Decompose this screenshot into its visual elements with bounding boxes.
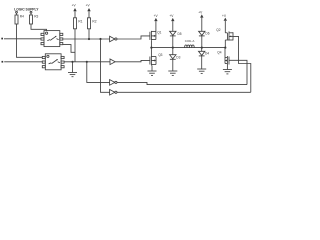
wire R3 lead to IC1 top bbox=[31, 24, 47, 31]
svg-text:LOGIC SUPPLY: LOGIC SUPPLY bbox=[14, 8, 39, 12]
svg-text:Q4: Q4 bbox=[217, 51, 221, 55]
svg-text:+V: +V bbox=[169, 14, 174, 18]
svg-text:+V: +V bbox=[86, 4, 91, 8]
svg-text:D4: D4 bbox=[205, 52, 209, 56]
svg-text:Q1: Q1 bbox=[157, 31, 161, 35]
supply +V arrow 2 bbox=[86, 4, 91, 18]
wire rail coil A bbox=[151, 47, 225, 49]
transistor Q2 bbox=[216, 28, 233, 41]
wire inverter2 out to Q3 gate bbox=[115, 60, 150, 61]
svg-text:D6: D6 bbox=[205, 32, 209, 36]
svg-text:+V: +V bbox=[222, 14, 227, 18]
svg-text:R3: R3 bbox=[34, 15, 38, 19]
supply +V arrow D5 bbox=[169, 14, 174, 32]
inverter 4 bbox=[110, 90, 117, 96]
diode D4 bbox=[199, 48, 210, 56]
supply +V arrow 1 bbox=[72, 4, 77, 18]
svg-text:+V: +V bbox=[72, 4, 77, 8]
resistor R1 bbox=[74, 18, 83, 29]
op-amp U1 optocoupler DIP bbox=[41, 31, 63, 47]
wire Q4 middle lead to right edge loop bbox=[229, 60, 247, 84]
wire L from line1 to R1 lead bbox=[63, 45, 75, 53]
wire Q2 gate loop to bottom line2 bbox=[233, 36, 251, 92]
svg-text:+V: +V bbox=[154, 14, 159, 18]
wire inverter3 out long bottom line bbox=[117, 82, 247, 84]
svg-text:COIL A: COIL A bbox=[185, 39, 195, 43]
diode D6 bbox=[199, 31, 210, 47]
inverter 1 bbox=[110, 36, 117, 42]
supply +V arrow Q1 bbox=[154, 14, 159, 40]
svg-text:R2: R2 bbox=[92, 20, 96, 24]
ground under D3 bbox=[168, 59, 177, 75]
resistor R4 bbox=[15, 11, 24, 24]
svg-text:R4: R4 bbox=[20, 15, 24, 19]
svg-text:D5: D5 bbox=[178, 32, 182, 36]
node A terminal bbox=[1, 38, 3, 40]
ground under Q4 bbox=[223, 65, 232, 74]
inductor COIL A bbox=[185, 39, 195, 47]
wire input B bbox=[4, 61, 42, 63]
resistor R3 bbox=[30, 11, 39, 24]
svg-text:Q2: Q2 bbox=[216, 28, 220, 32]
svg-text:Q3: Q3 bbox=[158, 53, 162, 57]
wire line2 IC2 output to inverter2 bbox=[64, 61, 110, 63]
op-amp U2 optocoupler DIP bbox=[42, 54, 64, 70]
node rail dots bbox=[150, 47, 152, 49]
transistor Q4 bbox=[217, 48, 229, 65]
svg-text:R1: R1 bbox=[78, 20, 82, 24]
inverter 2 bbox=[110, 59, 115, 65]
transistor Q3 bbox=[150, 48, 163, 66]
wire vertical to inverter3 bbox=[87, 62, 110, 83]
diode D5 bbox=[170, 31, 182, 47]
ground under Q3 bbox=[148, 66, 157, 76]
wire R2 lead down bbox=[88, 29, 90, 39]
wire inverter1 out to Q1 gate bbox=[117, 36, 150, 39]
diode D3 bbox=[170, 48, 181, 60]
wire inverter4 out long bottom line bbox=[117, 91, 251, 93]
node B terminal bbox=[2, 61, 4, 63]
transistor Q1 bbox=[150, 31, 162, 48]
wire R1 lead down bbox=[74, 29, 76, 62]
wire line1 IC1 output to inverter1 bbox=[63, 38, 110, 40]
supply +V arrow Q2 bbox=[222, 14, 227, 48]
svg-text:D3: D3 bbox=[176, 55, 180, 59]
wire input A bbox=[4, 38, 41, 40]
supply +V arrow D6 bbox=[198, 10, 203, 31]
inverter 3 bbox=[110, 80, 117, 86]
wire vertical to inverter4 bbox=[101, 39, 110, 92]
ground under IC2 line bbox=[68, 62, 77, 77]
resistor R2 bbox=[88, 18, 97, 29]
wire R4 lead down to IC2 pin bbox=[17, 24, 43, 57]
svg-text:+V: +V bbox=[198, 10, 203, 14]
ground under D4 bbox=[197, 56, 206, 74]
node junction dots on line2 bbox=[71, 61, 73, 63]
node junction dots on line1 bbox=[88, 38, 90, 40]
